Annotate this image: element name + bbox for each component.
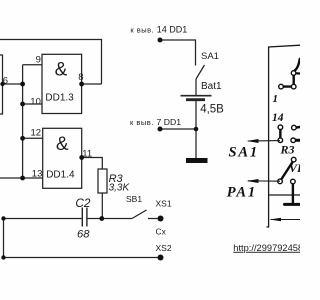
svg-text:9: 9 <box>36 54 41 65</box>
svg-text:68: 68 <box>77 228 90 240</box>
trace pad4-pad6 jumper <box>279 130 282 139</box>
wire pin 13 from left edge <box>0 177 43 179</box>
junction dot bus pin13 <box>20 176 25 181</box>
pad P8 <box>291 157 296 162</box>
capacitor C2 plate right <box>86 208 88 227</box>
wire feedback top rail <box>0 39 102 41</box>
arrow to PA1 <box>248 180 280 182</box>
svg-text:11: 11 <box>82 149 92 160</box>
wire tap pin7 <box>160 128 196 130</box>
svg-text:Bat1: Bat1 <box>201 81 222 92</box>
junction dot pin6 <box>0 82 4 86</box>
gate DD1.3 <box>42 54 82 113</box>
ground bar <box>186 158 208 163</box>
wire SA1 to battery <box>195 79 197 95</box>
svg-text:http://2997924580: http://2997924580 <box>233 243 300 253</box>
trace pad1 stub right <box>296 72 300 74</box>
wire battery to ground <box>195 101 197 158</box>
svg-text:SA1: SA1 <box>201 51 219 62</box>
svg-text:14: 14 <box>272 112 284 124</box>
svg-text:DD1.4: DD1.4 <box>46 170 75 181</box>
svg-text:1: 1 <box>273 93 279 105</box>
supply dot 7 <box>158 127 163 132</box>
trace pad10 down <box>292 184 294 204</box>
svg-text:VD: VD <box>289 161 300 175</box>
supply dot 14 <box>158 38 163 43</box>
pad P9 <box>278 179 283 184</box>
trace bottom bar <box>285 203 301 206</box>
svg-text:Cx: Cx <box>156 227 167 237</box>
pad P4 <box>278 125 283 130</box>
svg-text:DD1.3: DD1.3 <box>45 92 74 103</box>
junction dot bus pin10 <box>20 102 25 107</box>
gate DD1.2 (cropped at left edge) <box>0 55 3 114</box>
gate DD1.4 <box>43 128 82 188</box>
junction dot battery wire <box>194 127 199 132</box>
svg-text:12: 12 <box>31 127 42 138</box>
wire rail C2 right to SB1 <box>88 218 133 220</box>
pad P3 <box>291 84 296 89</box>
svg-text:XS1: XS1 <box>156 199 172 209</box>
junction dot rail left top <box>1 216 5 220</box>
svg-text:10: 10 <box>30 97 41 108</box>
junction dot bus pin12 <box>20 136 25 141</box>
svg-text:к выв.: к выв. <box>130 26 154 35</box>
dimension arrow bottom <box>271 219 300 221</box>
trace pad7 stub <box>296 139 301 142</box>
svg-text:R3: R3 <box>280 143 295 157</box>
wire inside board <box>269 194 300 196</box>
wire pin 12 <box>23 137 43 139</box>
trace pad1 arc <box>295 59 300 71</box>
wire lower rail <box>4 257 161 259</box>
svg-text:8: 8 <box>78 72 83 83</box>
svg-text:C2: C2 <box>75 196 91 210</box>
svg-text:3,3K: 3,3K <box>109 182 131 193</box>
wire supply to SA1 <box>160 40 196 66</box>
wire pin 9 <box>23 64 42 66</box>
battery Bat1 long plate <box>181 95 212 97</box>
arrow to SA1 <box>248 140 280 142</box>
wire pin 10 <box>23 103 42 105</box>
battery Bat1 short plate <box>186 98 205 101</box>
svg-text:13: 13 <box>32 169 43 180</box>
terminal XS2 <box>158 255 164 261</box>
svg-text:7 DD1: 7 DD1 <box>157 117 182 127</box>
switch SB1 contact <box>148 218 158 220</box>
input bus wire <box>22 65 24 178</box>
wire rail C2 left <box>4 218 82 220</box>
capacitor C2 plate left <box>81 208 83 227</box>
svg-text:SB1: SB1 <box>126 194 142 204</box>
switch SA1 blade <box>196 65 205 79</box>
resistor R3 <box>98 169 107 193</box>
terminal XS1 <box>158 216 164 222</box>
wire feedback vertical <box>101 40 103 85</box>
junction dot pin8 <box>79 82 84 87</box>
svg-text:SA1: SA1 <box>229 145 259 161</box>
pad P10 <box>291 179 296 184</box>
junction dot R3 rail <box>99 216 104 221</box>
junction dot rail left bottom <box>1 255 5 259</box>
svg-text:&: & <box>55 60 68 81</box>
trace pad9-pad8 diagonal <box>281 162 293 180</box>
wire R3 to rail <box>101 193 103 219</box>
pad P5 <box>292 125 297 130</box>
wire pin 11 output <box>82 158 103 170</box>
wire pin 8 output <box>82 83 102 85</box>
svg-text:4,5B: 4,5B <box>200 104 224 116</box>
pad P2 <box>279 84 284 89</box>
trace pad5 stub <box>296 126 300 129</box>
wire pin6 to input bus <box>3 83 23 85</box>
svg-text:к выв.: к выв. <box>130 118 154 127</box>
svg-text:&: & <box>56 134 69 155</box>
board outline <box>267 45 301 227</box>
pad P1 <box>291 71 296 76</box>
trace pad3-pad1 <box>293 75 295 84</box>
trace pad2-pad3 <box>283 85 291 87</box>
pad P7 <box>291 138 296 143</box>
switch SB1 blade <box>132 210 147 219</box>
pad P6 <box>278 138 283 143</box>
svg-text:14 DD1: 14 DD1 <box>157 25 188 35</box>
wire between rails left <box>3 219 5 258</box>
junction dot pin11 <box>79 155 84 160</box>
svg-text:XS2: XS2 <box>156 243 172 253</box>
svg-text:PA1: PA1 <box>227 184 257 200</box>
junction dot bus pin6 <box>20 82 25 87</box>
svg-text:6: 6 <box>3 76 8 87</box>
